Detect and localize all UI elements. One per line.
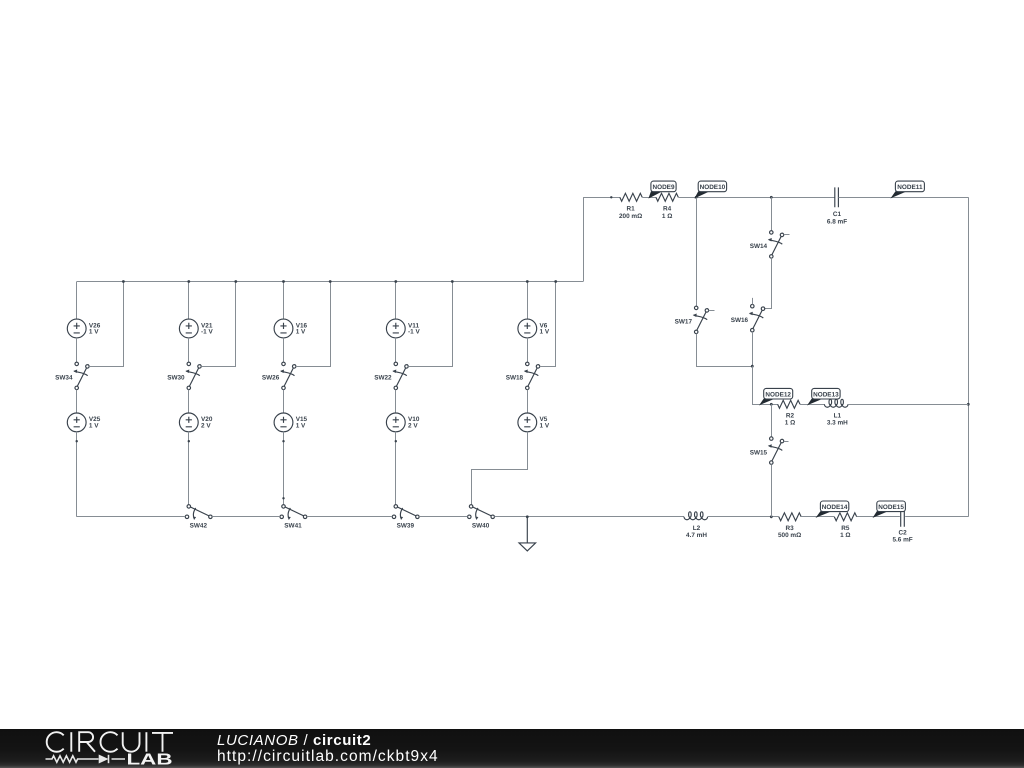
svg-text:SW39: SW39 [397, 523, 415, 530]
svg-text:2 V: 2 V [408, 422, 418, 429]
junction dot SW15 column on bottom rail [770, 515, 773, 518]
junction dot NODE10 column [695, 196, 698, 199]
wire C1 to right corner [839, 197, 969, 199]
voltage source V10 2 V [386, 413, 405, 432]
bottom rail segment 1 [77, 516, 186, 518]
bottom rail segment 3 [307, 516, 392, 518]
wire V16 to switch SW26 [283, 338, 285, 362]
svg-text:SW34: SW34 [55, 375, 73, 382]
wire right branch of SW30 to bus [201, 282, 235, 367]
svg-text:SW18: SW18 [506, 375, 524, 382]
wire column V11 from bus to source [395, 282, 397, 320]
junction dot below V10 [395, 440, 397, 442]
switch SW15 [768, 437, 784, 465]
wire SW17 and SW16 commons join [697, 334, 753, 367]
node tag NODE14 [816, 511, 833, 518]
wire V26 to switch SW34 [76, 338, 78, 362]
svg-text:R4: R4 [663, 206, 672, 213]
wire switch SW30 to source V20 [188, 390, 190, 413]
svg-text:C2: C2 [899, 529, 908, 536]
switch SW26 [280, 362, 296, 390]
svg-text:SW22: SW22 [374, 375, 392, 382]
ground symbol [519, 517, 536, 551]
wire SW14 to SW16 throw [765, 258, 772, 308]
svg-text:SW26: SW26 [262, 375, 280, 382]
junction dot below V20 [188, 440, 190, 442]
wire SW14 column from top row [771, 197, 773, 230]
switch SW22 [392, 362, 408, 390]
wire V20 down to switch [188, 432, 190, 505]
svg-text:1 V: 1 V [540, 328, 550, 335]
svg-text:SW42: SW42 [190, 523, 208, 530]
junction dot SW14 column [770, 196, 773, 199]
svg-text:SW40: SW40 [472, 523, 490, 530]
voltage source V21 -1 V [179, 319, 198, 338]
svg-text:2 V: 2 V [201, 422, 211, 429]
wire down to NODE12 row corner [753, 366, 778, 404]
svg-text:SW14: SW14 [750, 243, 768, 250]
voltage source V26 1 V [67, 319, 86, 338]
ground junction dot [526, 515, 529, 518]
resistor R1 200 m&#937; [620, 193, 642, 201]
wire L1 to right rail [848, 404, 968, 406]
wire column V6 from bus to source [527, 282, 529, 320]
svg-text:R1: R1 [627, 206, 636, 213]
svg-text:NODE13: NODE13 [813, 391, 839, 398]
capacitor C2 5.6 mF [901, 507, 905, 527]
node tag NODE10 [694, 191, 709, 198]
bottom rail segment 8 [857, 516, 900, 518]
bottom rail segment 4 [419, 516, 467, 518]
resistor R5 1 &#937; [834, 513, 856, 521]
wire SW15 column [771, 404, 773, 437]
svg-text:6.8 mF: 6.8 mF [827, 218, 847, 225]
wire top bus (left bus rail) [77, 281, 584, 283]
junction on bus at x=123.4 [122, 280, 125, 283]
switch SW42 [185, 505, 212, 520]
svg-text:C1: C1 [833, 211, 842, 218]
svg-text:NODE15: NODE15 [878, 504, 904, 511]
svg-text:SW30: SW30 [167, 375, 185, 382]
voltage source V20 2 V [179, 413, 198, 432]
voltage source V6 1 V [518, 319, 537, 338]
bottom rail segment 6 [708, 516, 779, 518]
node tag NODE15 [873, 511, 889, 518]
junction dot below V25 [76, 440, 78, 442]
node tag NODE9 [648, 191, 662, 198]
junction on bus at x=235.8 [234, 280, 237, 283]
wire column V26 from bus to source [76, 282, 78, 320]
voltage source V11 -1 V [386, 319, 405, 338]
svg-text:NODE11: NODE11 [897, 184, 923, 191]
wire right branch of SW34 to bus [89, 282, 123, 367]
voltage source V16 1 V [274, 319, 293, 338]
svg-text:1 Ω: 1 Ω [662, 213, 672, 220]
switch SW34 [73, 362, 89, 390]
junction on bus at x=452.3 [451, 280, 454, 283]
svg-text:L2: L2 [693, 525, 701, 532]
junction dot below V15 [282, 440, 284, 442]
wire R4 to C1 [678, 197, 834, 199]
svg-text:R2: R2 [786, 412, 795, 419]
junction on bus at x=188.8 [187, 280, 190, 283]
wire right vertical rail [968, 197, 970, 517]
resistor R3 500 m&#937; [779, 513, 801, 521]
svg-text:L1: L1 [834, 412, 842, 419]
junction dot right rail at L1 row [967, 403, 970, 406]
voltage source V25 1 V [67, 413, 86, 432]
svg-text:1 Ω: 1 Ω [785, 420, 795, 427]
wire right branch of SW22 to bus [408, 282, 452, 367]
junction dot SW15 tee [770, 403, 773, 406]
svg-text:5.6 mF: 5.6 mF [892, 537, 912, 544]
wire V21 to switch SW30 [188, 338, 190, 362]
junction on bus at x=555.7 [554, 280, 557, 283]
svg-text:NODE12: NODE12 [765, 391, 791, 398]
svg-text:NODE10: NODE10 [700, 184, 726, 191]
wire right branch of SW18 to bus [540, 282, 556, 367]
switch SW14 [768, 231, 784, 259]
inductor L1 3.3 mH [824, 404, 848, 407]
junction on bus at x=527.3 [526, 280, 529, 283]
bottom rail segment 7 [801, 516, 834, 518]
svg-text:LAB: LAB [127, 752, 173, 768]
switch SW16 [749, 304, 765, 332]
wire right branch of SW26 to bus [296, 282, 331, 367]
wire V5 down and jog left to SW40 [472, 432, 528, 505]
svg-text:NODE14: NODE14 [822, 504, 848, 511]
wire left-bus riser to top row [583, 197, 585, 281]
resistor R4 1 &#937; [656, 193, 678, 201]
switch SW40 [468, 505, 495, 520]
footer bar [0, 729, 1024, 768]
wire top row left segment [583, 197, 620, 199]
node tag NODE11 [890, 191, 907, 198]
switch SW17 [693, 306, 709, 334]
svg-text:R3: R3 [786, 525, 795, 532]
junction on bus at x=395.8 [394, 280, 397, 283]
svg-text:R5: R5 [841, 525, 850, 532]
svg-text:1 V: 1 V [540, 422, 550, 429]
bottom rail segment 9 [905, 516, 968, 518]
wire SW16 common down [752, 332, 754, 366]
wire V11 to switch SW22 [395, 338, 397, 362]
junction dot above SW41 [282, 497, 284, 499]
junction on bus at x=330.2 [329, 280, 332, 283]
svg-text:4.7 mH: 4.7 mH [686, 532, 707, 539]
junction on bus at x=283.5 [282, 280, 285, 283]
voltage source V5 1 V [518, 413, 537, 432]
svg-text:-1 V: -1 V [201, 328, 213, 335]
svg-text:3.3 mH: 3.3 mH [827, 420, 848, 427]
wire R2 to L1 [800, 404, 824, 406]
switch SW41 [280, 505, 307, 520]
svg-text:SW41: SW41 [284, 523, 302, 530]
wire V15 down to switch [283, 432, 285, 505]
wire V10 down to switch [395, 432, 397, 505]
bottom rail segment 5 [494, 516, 684, 518]
switch SW30 [185, 362, 201, 390]
svg-text:500 mΩ: 500 mΩ [778, 532, 801, 539]
wire V25 down to bottom rail [76, 432, 78, 517]
svg-text:1 V: 1 V [296, 328, 306, 335]
wire V6 to switch SW18 [527, 338, 529, 362]
voltage source V15 1 V [274, 413, 293, 432]
switch SW39 [392, 505, 419, 520]
svg-text:SW15: SW15 [750, 449, 768, 456]
wire between R1 and R4 [642, 197, 656, 199]
inductor L2 4.7 mH [684, 517, 708, 520]
svg-text:1 V: 1 V [296, 422, 306, 429]
wire column V16 from bus to source [283, 282, 285, 320]
svg-text:1 Ω: 1 Ω [840, 532, 850, 539]
svg-text:1 V: 1 V [89, 328, 99, 335]
wire SW15 down to bottom rail [771, 464, 773, 516]
svg-text:200 mΩ: 200 mΩ [619, 213, 642, 220]
junction dot at SW16 join [751, 365, 754, 368]
resistor R2 1 &#937; [778, 400, 800, 408]
svg-text:1 V: 1 V [89, 422, 99, 429]
node tag NODE13 [807, 399, 823, 406]
wire switch SW26 to source V15 [283, 390, 285, 413]
wire column V21 from bus to source [188, 282, 190, 320]
bottom rail segment 2 [212, 516, 280, 518]
wire switch SW22 to source V10 [395, 390, 397, 413]
svg-text:SW17: SW17 [675, 319, 693, 326]
svg-text:-1 V: -1 V [408, 328, 420, 335]
wire switch SW18 to source V5 [527, 390, 529, 413]
wire switch SW34 to source V25 [76, 390, 78, 413]
switch SW18 [524, 362, 540, 390]
svg-text:SW16: SW16 [731, 317, 749, 324]
stub above SW16 [752, 298, 754, 305]
footer logo CIRCUIT (thin path letters) [47, 732, 173, 752]
svg-text:NODE9: NODE9 [652, 184, 674, 191]
footer logo resistor-diode glyph [46, 755, 126, 764]
junction dot on top row [610, 196, 612, 198]
node tag NODE12 [759, 399, 775, 406]
wire NODE10 column down to SW17 [696, 197, 698, 306]
capacitor C1 6.8 mF [835, 187, 839, 207]
